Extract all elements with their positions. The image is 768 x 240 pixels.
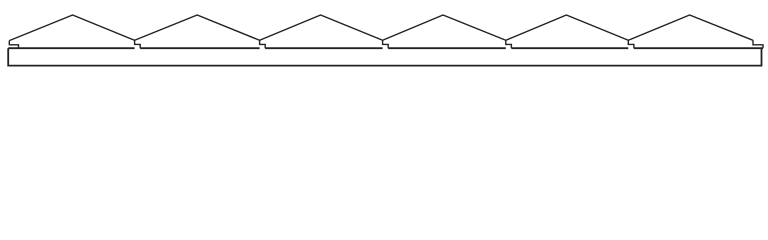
junction step 1 [135, 40, 141, 48]
base bar top edge (gapped under board notches) [8, 47, 763, 49]
left end step [9, 41, 18, 49]
right end step [753, 40, 763, 48]
junction step 5 [628, 40, 634, 48]
base bar sides and bottom [8, 48, 761, 65]
junction step 4 [506, 40, 512, 48]
junction step 2 [260, 40, 266, 48]
roof zigzag (board slopes) [9, 15, 753, 41]
siding cross-section diagram [0, 0, 768, 83]
junction step 3 [383, 40, 389, 48]
